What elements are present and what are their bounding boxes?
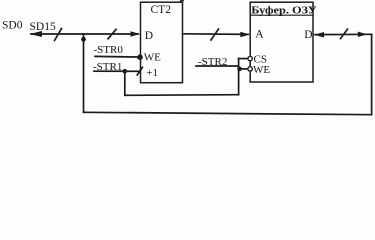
svg-text:CT2: CT2 — [151, 4, 172, 16]
svg-text:WE: WE — [144, 51, 161, 63]
wire: stub to RAM CS — [239, 58, 248, 60]
stray scan mark at CT2 corner — [180, 0, 184, 2]
wire: -STR1 to CT2 +1 — [94, 70, 140, 72]
counter CT2 box — [141, 2, 183, 83]
inversion bubble CT2 WE pin — [137, 54, 143, 60]
bus slash mark 2 — [108, 29, 116, 39]
inversion bubble RAM WE pin — [248, 67, 252, 71]
buffer RAM title separator — [250, 14, 313, 16]
dynamic input slash on +1 pin — [137, 67, 142, 75]
wire: SD bus to CT2 D input — [31, 33, 138, 35]
bus slash mark 1 — [55, 29, 62, 41]
svg-text:Буфер. ОЗУ: Буфер. ОЗУ — [251, 5, 316, 17]
wire: outer right vertical — [371, 34, 373, 114]
wire: inner loop bottom — [125, 94, 239, 97]
svg-text:WE: WE — [253, 64, 270, 76]
svg-text:-STR0: -STR0 — [94, 44, 124, 56]
svg-text:+1: +1 — [146, 67, 158, 79]
arrowhead: into CT2 D — [131, 31, 141, 36]
arrowhead: into RAM A — [240, 32, 250, 37]
svg-text:A: A — [255, 29, 264, 41]
wire: -STR0 to CT2 WE — [95, 55, 137, 58]
arrowhead: bus left end — [30, 31, 43, 37]
node: WE stub junction — [237, 67, 242, 72]
wire: outer bottom feedback — [84, 112, 372, 114]
svg-text:SD15: SD15 — [30, 21, 56, 33]
slash on D wire — [341, 29, 348, 38]
node: bus junction — [81, 37, 86, 42]
node: -STR1 junction — [123, 69, 128, 74]
svg-text:SD0: SD0 — [2, 20, 23, 32]
wire: feedback left vertical — [83, 34, 85, 112]
wire: stub to RAM WE — [239, 68, 248, 70]
svg-text:D: D — [304, 29, 312, 41]
wire: -STR2 input — [196, 65, 239, 67]
arrowhead: into RAM D — [314, 32, 324, 38]
wire: CT2 output to RAM A input — [183, 33, 249, 36]
wire: RAM D to right corner — [315, 33, 372, 35]
svg-text:-STR2: -STR2 — [198, 56, 227, 68]
slash on A wire — [211, 29, 219, 40]
wire: inner loop right vertical — [238, 59, 240, 95]
svg-text:D: D — [145, 30, 153, 42]
arrowhead: D wire right end — [358, 32, 368, 37]
buffer RAM box — [250, 2, 313, 82]
svg-text:-STR1: -STR1 — [93, 61, 122, 73]
wire: inner loop left vertical — [124, 71, 126, 95]
inversion bubble RAM CS pin — [248, 56, 252, 60]
